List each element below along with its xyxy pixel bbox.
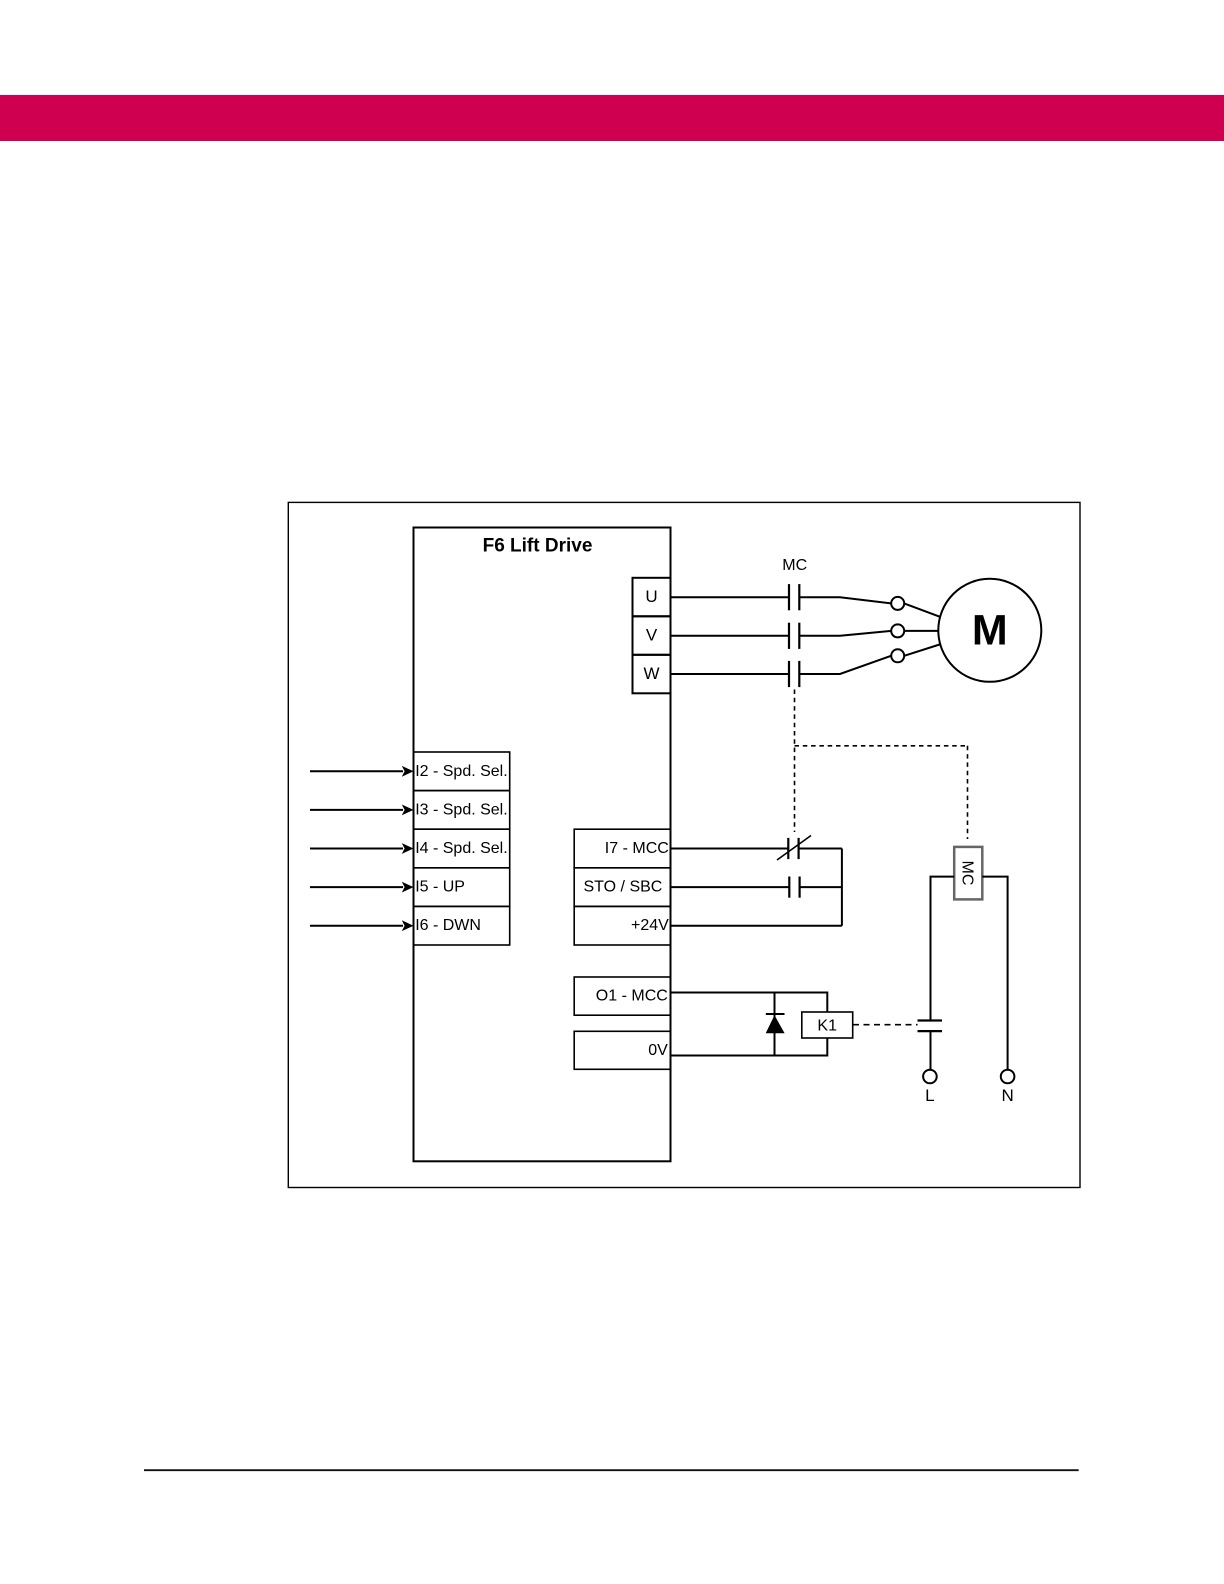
motor M1	[938, 579, 1041, 682]
header crimson bar	[0, 95, 1224, 141]
contactor MC main contact U	[789, 584, 799, 610]
svg-text:I5 - UP: I5 - UP	[415, 879, 465, 896]
motor terminal circle W	[891, 649, 904, 662]
svg-text:+24V: +24V	[631, 917, 669, 934]
dashed link branch to MC coil	[795, 745, 968, 747]
wire +24V	[671, 925, 842, 927]
svg-text:M: M	[972, 607, 1008, 655]
wire W phase	[671, 656, 892, 674]
terminal W	[633, 655, 671, 694]
terminal I7-MCC	[574, 829, 670, 868]
terminal +24V	[574, 906, 670, 945]
diode D1 flyback	[766, 993, 785, 1056]
input terminal I2	[414, 752, 510, 791]
terminal V	[633, 616, 671, 655]
wire L side to coil	[931, 877, 955, 1021]
arrow into I6	[310, 920, 414, 931]
wire right rail joining I7/STO/+24V	[841, 849, 843, 926]
svg-text:I7 - MCC: I7 - MCC	[605, 840, 669, 857]
svg-text:L: L	[925, 1086, 934, 1105]
arrow into I2	[310, 766, 414, 777]
drive box U1 F6 Lift Drive	[414, 528, 671, 1162]
svg-text:MC: MC	[959, 861, 976, 886]
contactor MC main contact W	[789, 661, 799, 687]
wire U phase	[671, 597, 892, 603]
svg-text:I2 - Spd. Sel.: I2 - Spd. Sel.	[415, 763, 508, 780]
svg-text:V: V	[646, 626, 658, 645]
terminal STO/SBC	[574, 868, 670, 907]
relay K1	[802, 1012, 853, 1038]
contactor MC aux NC contact	[777, 836, 811, 861]
wire I7-MCC	[671, 848, 842, 850]
terminal circle N	[1001, 1070, 1015, 1084]
contactor coil MC	[954, 847, 982, 900]
wire contact to L terminal	[930, 1031, 932, 1070]
arrow into I4	[310, 843, 414, 854]
motor terminal circle U	[891, 597, 904, 610]
footer rule	[144, 1469, 1079, 1471]
wire circle U to motor	[904, 603, 940, 616]
dashed link K1 to MC coil contact	[853, 1024, 918, 1026]
svg-text:U: U	[645, 587, 657, 606]
input terminal I5	[414, 868, 510, 907]
terminal 0V	[574, 1031, 670, 1069]
arrow into I5	[310, 882, 414, 893]
wire circle W to motor	[904, 645, 939, 656]
terminal U	[633, 578, 671, 617]
svg-text:I3 - Spd. Sel.: I3 - Spd. Sel.	[415, 801, 508, 818]
dashed link MC main contacts to aux contact	[794, 690, 796, 833]
svg-text:STO / SBC: STO / SBC	[584, 879, 663, 896]
wire STO/SBC	[671, 886, 842, 888]
input terminal I6	[414, 906, 510, 945]
svg-text:0V: 0V	[648, 1042, 668, 1059]
motor terminal circle V	[891, 624, 904, 637]
contactor MC main contact V	[789, 623, 799, 649]
wire V phase	[671, 631, 892, 636]
terminal circle L	[923, 1070, 937, 1084]
svg-text:I6 - DWN: I6 - DWN	[415, 917, 481, 934]
arrow into I3	[310, 805, 414, 816]
svg-text:MC: MC	[782, 557, 807, 574]
wire circle V to motor	[904, 630, 938, 632]
svg-text:F6 Lift Drive: F6 Lift Drive	[483, 536, 593, 557]
wire O1-MCC to K1	[671, 993, 828, 1013]
svg-text:O1 - MCC: O1 - MCC	[596, 988, 668, 1005]
K1 contact in L line	[918, 1021, 943, 1032]
wire coil to N terminal	[982, 877, 1007, 1070]
contactor MC aux NO contact (STO)	[789, 877, 799, 898]
wire 0V rail	[671, 1038, 828, 1056]
terminal O1-MCC	[574, 977, 670, 1015]
input terminal I4	[414, 829, 510, 868]
svg-text:W: W	[643, 664, 659, 683]
dashed link down to MC coil	[967, 746, 969, 839]
svg-text:N: N	[1001, 1086, 1013, 1105]
svg-text:K1: K1	[817, 1018, 837, 1035]
input terminal I3	[414, 791, 510, 830]
svg-text:I4 - Spd. Sel.: I4 - Spd. Sel.	[415, 840, 508, 857]
diagram outer frame	[288, 502, 1080, 1187]
